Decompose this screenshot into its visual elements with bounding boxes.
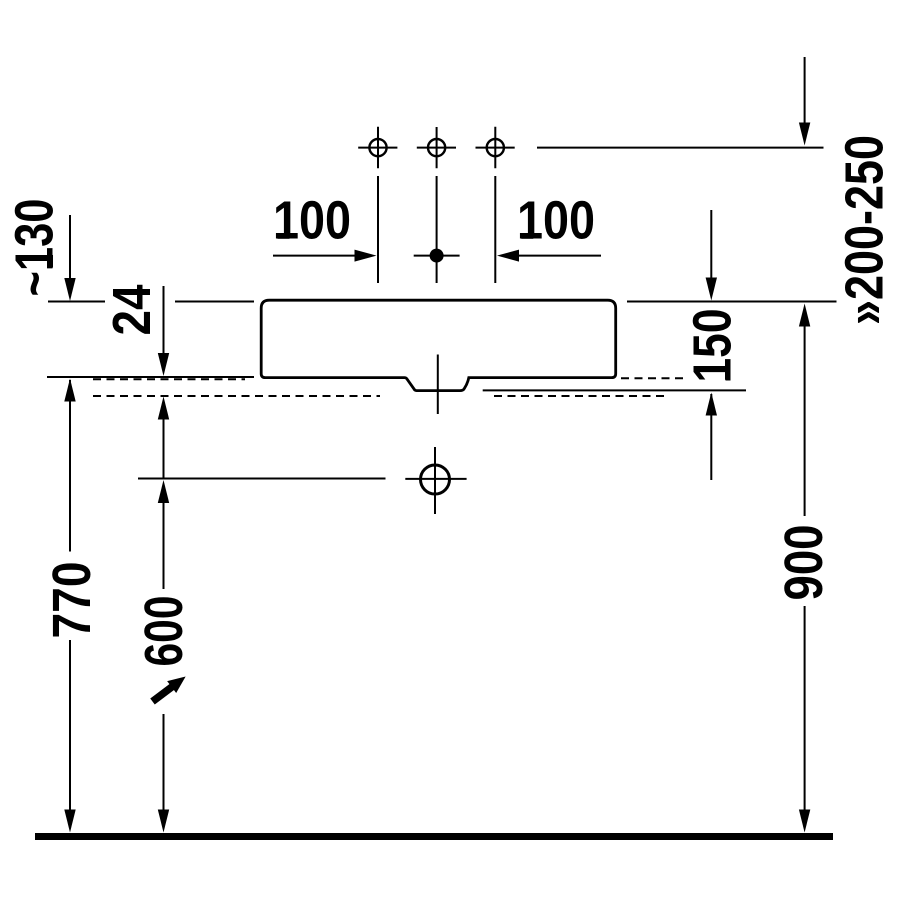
arrow up dim 770 (64, 379, 75, 402)
countertop surface line left (47, 376, 254, 378)
reference line basin top right (627, 301, 837, 303)
dimension line 770 (69, 380, 71, 812)
arrow down dim 900 at floor (799, 810, 810, 833)
dimension line ~130 (69, 215, 71, 282)
arrow right dim 100 left (355, 250, 377, 262)
dimension line 600 (163, 418, 165, 812)
crosshair drain circle (405, 447, 466, 514)
faucet hole circle left (369, 139, 386, 156)
svg-text:~130: ~130 (5, 199, 65, 297)
crosshair center dot (414, 255, 460, 257)
basin outline (261, 300, 616, 390)
svg-text:770: 770 (42, 562, 102, 639)
svg-text:24: 24 (102, 285, 162, 336)
drain height reference line y478 (138, 478, 386, 480)
arrow left dim 100 right (497, 250, 519, 262)
svg-text:»200-250: »200-250 (835, 135, 895, 325)
svg-text:100: 100 (273, 191, 351, 251)
arrow up dim 150 (706, 393, 717, 416)
arrow down dim 24 (158, 353, 169, 376)
extension line below right hole (494, 176, 496, 283)
dimension line 150 lower (710, 394, 712, 480)
arrow up dim 900 (799, 304, 810, 327)
hidden dashed line lower right (494, 395, 669, 397)
dimension line 900 (804, 325, 806, 812)
drain circle (421, 465, 450, 494)
reference line basin top left segment 2 (175, 301, 254, 303)
foot bar of 1 in 100 left (278, 234, 290, 239)
reference line basin top left segment (48, 301, 105, 303)
extension line below center hole (436, 176, 438, 283)
hidden dashed line lower left (93, 395, 380, 397)
faucet hole circle right (487, 139, 504, 156)
crosshair faucet hole center (417, 127, 456, 168)
arrow up dim 600 upper (158, 397, 169, 420)
dimension line 100 right (513, 255, 601, 257)
basin centerline (437, 355, 439, 415)
hidden dashed line right upper (621, 377, 684, 379)
arrow down dim ~130 (64, 278, 75, 301)
foot bar of 1 in 100 right (521, 234, 533, 239)
lower solid line right (483, 389, 746, 391)
dimension line 100 left (273, 255, 357, 257)
foot bar of 1 in 150 (726, 368, 731, 381)
faucet hole circle center (428, 139, 445, 156)
dimension line 150 upper (710, 210, 712, 281)
dimension line 24 (163, 286, 165, 356)
svg-text:100: 100 (517, 191, 595, 251)
arrow up dim 600 at drain line (158, 480, 169, 503)
arrow down dim 770 at floor (64, 810, 75, 833)
arrow down dim 150 (706, 278, 717, 301)
center dot (430, 249, 444, 263)
arrow down dim 600 at floor (158, 810, 169, 833)
svg-text:600: 600 (134, 596, 194, 667)
floor line (35, 833, 833, 840)
slope direction arrow (148, 671, 190, 708)
extension line below left hole (377, 176, 379, 283)
arrow down dim 200-250 (799, 123, 810, 146)
svg-text:150: 150 (683, 309, 743, 383)
crosshair faucet hole right (476, 127, 515, 169)
svg-text:900: 900 (774, 525, 834, 601)
hidden dashed line left upper (93, 378, 245, 380)
crosshair faucet hole left (358, 127, 397, 169)
wall outlet reference line y147 (537, 147, 824, 149)
foot bar of 1 in ~130 (48, 255, 53, 268)
dimension line 200-250 vertical (804, 57, 806, 130)
